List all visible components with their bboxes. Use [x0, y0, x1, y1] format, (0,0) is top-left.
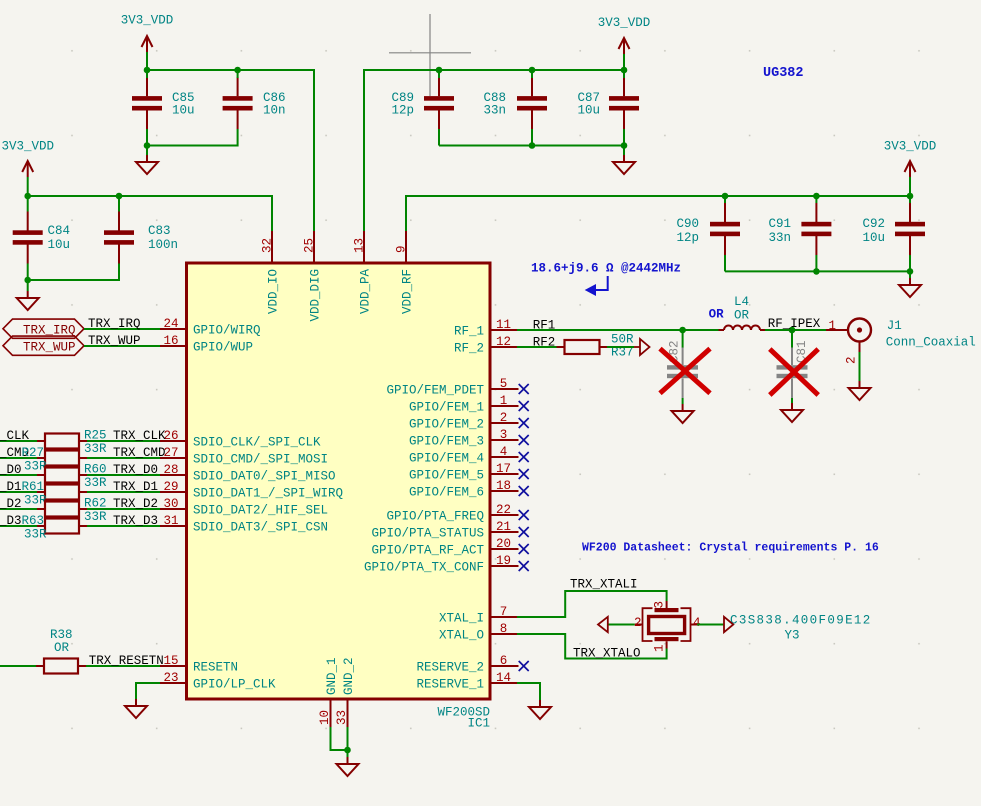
svg-text:C84: C84	[48, 224, 71, 238]
svg-text:GPIO/PTA_STATUS: GPIO/PTA_STATUS	[371, 527, 484, 541]
power symbol 3V3_VDD (top center)	[598, 16, 651, 54]
svg-text:5: 5	[500, 377, 508, 391]
net label TRX_XTALO	[573, 647, 641, 661]
svg-text:C90: C90	[676, 217, 699, 231]
pin name XTAL_O	[439, 629, 484, 643]
svg-text:18.6+j9.6 Ω @2442MHz: 18.6+j9.6 Ω @2442MHz	[531, 262, 681, 276]
svg-text:11: 11	[496, 318, 511, 332]
ground below C92	[899, 278, 921, 297]
svg-text:20: 20	[496, 537, 511, 551]
pin number 8	[500, 622, 508, 636]
label Y3 value	[730, 614, 872, 628]
svg-text:6: 6	[500, 654, 508, 668]
svg-text:RESERVE_1: RESERVE_1	[416, 678, 484, 692]
pin 21 GPIO/PTA_STATUS (right)	[490, 531, 519, 533]
capacitor C85	[132, 77, 162, 129]
ground below C85	[136, 155, 158, 174]
wire 3V3_VDD right arrow to rail	[909, 177, 911, 196]
pin name XTAL_I	[439, 612, 484, 626]
svg-text:100n: 100n	[148, 238, 178, 252]
svg-text:10: 10	[318, 710, 332, 725]
wire C90-C92 bottom rail	[725, 270, 910, 272]
resistor R62 33R	[45, 502, 79, 517]
wire C88 top stub	[531, 70, 533, 78]
wire C87 ground stub	[623, 146, 625, 156]
svg-text:1: 1	[500, 394, 508, 408]
pin number 25	[303, 238, 317, 253]
wire crystal pin4 stub	[697, 624, 724, 626]
pin number 10	[318, 710, 332, 725]
svg-text:GPIO/FEM_PDET: GPIO/FEM_PDET	[386, 384, 484, 398]
svg-text:SDIO_DAT0/_SPI_MISO: SDIO_DAT0/_SPI_MISO	[193, 470, 336, 484]
svg-text:R27: R27	[22, 446, 45, 460]
ground at pin 23	[125, 699, 147, 718]
svg-text:23: 23	[163, 671, 178, 685]
label C83 ref	[148, 224, 171, 238]
svg-text:3V3_VDD: 3V3_VDD	[121, 14, 174, 28]
svg-text:C3S838.400F09E12: C3S838.400F09E12	[730, 614, 872, 628]
label C86 ref	[263, 91, 286, 105]
wire TRX_D0 left stub	[0, 474, 37, 476]
resistor R63 pins	[37, 525, 87, 527]
net label TRX_XTALI	[570, 578, 638, 592]
pin number 17	[496, 462, 511, 476]
pin 10 GND_1 (bottom)	[330, 699, 332, 727]
cursor crosshair	[389, 14, 471, 96]
wire TRX_D1 left stub	[0, 491, 37, 493]
pin 15 RESETN (left)	[160, 665, 187, 667]
svg-text:RF_1: RF_1	[454, 325, 484, 339]
svg-text:XTAL_O: XTAL_O	[439, 629, 484, 643]
pin number 32	[261, 238, 275, 253]
label IC1 ref	[467, 717, 490, 731]
pin name RESETN	[193, 661, 238, 675]
pin number 5	[500, 377, 508, 391]
pin number 12	[496, 335, 511, 349]
svg-text:Y3: Y3	[785, 629, 800, 643]
label R63 value 33R	[24, 528, 47, 542]
ground below C82	[672, 404, 694, 423]
wire XTAL_I to crystal	[517, 591, 667, 617]
svg-text:15: 15	[163, 654, 178, 668]
svg-text:10u: 10u	[577, 104, 600, 118]
net label RF_IPEX	[768, 317, 821, 331]
capacitor C90	[710, 203, 740, 255]
svg-text:Conn_Coaxial: Conn_Coaxial	[886, 336, 976, 350]
pin number 11	[496, 318, 511, 332]
label C90 ref	[676, 217, 699, 231]
capacitor C92	[895, 203, 925, 255]
svg-text:VDD_IO: VDD_IO	[267, 269, 281, 314]
pin name GPIO/FEM_PDET	[386, 384, 484, 398]
svg-text:_D1: _D1	[0, 480, 22, 494]
svg-text:GPIO/LP_CLK: GPIO/LP_CLK	[193, 678, 276, 692]
pin 19 GPIO/PTA_TX_CONF (right)	[490, 565, 519, 567]
pin name GPIO/FEM_2	[409, 418, 484, 432]
wire TRX_CMD left stub	[0, 457, 37, 459]
pin name SDIO_DAT0/_SPI_MISO	[193, 470, 336, 484]
svg-text:VDD_DIG: VDD_DIG	[309, 269, 323, 322]
svg-text:SDIO_DAT1_/_SPI_WIRQ: SDIO_DAT1_/_SPI_WIRQ	[193, 487, 343, 501]
label Y3 ref	[785, 629, 800, 643]
no-connect X pin 18	[519, 486, 529, 496]
svg-text:24: 24	[163, 317, 178, 331]
wire TRX_RESETN left stub	[0, 665, 36, 667]
wire RF_IPEX to J1	[826, 329, 847, 331]
wire C84 ground stub	[27, 280, 29, 291]
pin 8 XTAL_O (right)	[490, 633, 517, 635]
capacitor C82 (DNP, gray)	[667, 340, 698, 398]
pin number 18	[496, 479, 511, 493]
svg-text:TRX_CMD: TRX_CMD	[113, 446, 166, 460]
label C89 value 12p	[391, 104, 414, 118]
resistor R61 33R	[45, 485, 79, 500]
no-connect X pin 17	[519, 469, 529, 479]
no-connect X pin 20	[519, 544, 529, 554]
label R60 ref	[84, 463, 107, 477]
pin 11 RF_1 (right)	[490, 329, 517, 331]
pin name SDIO_DAT1_/_SPI_WIRQ	[193, 487, 343, 501]
junction left rail at C84	[24, 193, 31, 200]
svg-text:3: 3	[653, 601, 667, 609]
resistor R37 50R	[565, 340, 600, 354]
svg-text:10u: 10u	[862, 231, 885, 245]
label R61 value 33R	[24, 494, 47, 508]
svg-text:OR: OR	[54, 641, 70, 655]
junction C87 bottom	[621, 142, 628, 149]
pin name VDD_PA	[359, 268, 373, 314]
svg-text:2: 2	[845, 356, 859, 364]
label C84 value 10u	[48, 238, 71, 252]
svg-text:TRX_RESETN: TRX_RESETN	[89, 654, 164, 668]
note impedance 18.6+j9.6	[531, 262, 681, 276]
net label TRX_CMD	[113, 446, 166, 460]
pin name GND_2	[342, 657, 356, 695]
pin number 29	[163, 480, 178, 494]
label J1 value Conn_Coaxial	[886, 336, 976, 350]
net label RF1	[533, 318, 556, 332]
wire C84 bottom to rail	[27, 264, 29, 281]
DNP cross C82	[660, 349, 710, 394]
svg-text:IC1: IC1	[467, 717, 490, 731]
svg-text:1: 1	[828, 319, 836, 333]
svg-text:GPIO/FEM_3: GPIO/FEM_3	[409, 435, 484, 449]
pin 31 SDIO_DAT3/_SPI_CSN (left)	[160, 525, 187, 527]
wire RF1 net (right of L4)	[764, 329, 826, 331]
pin 1 GPIO/FEM_1 (right)	[490, 405, 519, 407]
wire C84 top stub	[27, 196, 29, 212]
wire C92 ground stub	[909, 271, 911, 278]
label R27 value 33R	[24, 460, 47, 474]
wire C89 bottom to rail corner	[438, 129, 440, 146]
svg-text:VDD_PA: VDD_PA	[359, 268, 373, 314]
pin 20 GPIO/PTA_RF_ACT (right)	[490, 548, 519, 550]
pin name SDIO_DAT3/_SPI_CSN	[193, 521, 328, 535]
wire top-left 3V3 rail to pin 25	[147, 70, 314, 231]
label C90 value 12p	[676, 231, 699, 245]
resistor R25 33R	[45, 434, 79, 449]
svg-text:SDIO_CLK/_SPI_CLK: SDIO_CLK/_SPI_CLK	[193, 436, 321, 450]
pin name GPIO/WIRQ	[193, 324, 261, 338]
svg-text:2: 2	[500, 411, 508, 425]
svg-text:3: 3	[500, 428, 508, 442]
wire C81 bottom stub	[791, 398, 793, 403]
label R37 ref	[611, 346, 634, 360]
no-connect X pin 4	[519, 452, 529, 462]
svg-text:GPIO/FEM_6: GPIO/FEM_6	[409, 486, 484, 500]
svg-text:27: 27	[163, 446, 178, 460]
wire GND_2 to ground	[347, 727, 349, 757]
pin 5 GPIO/FEM_PDET (right)	[490, 388, 519, 390]
svg-text:TRX_XTALI: TRX_XTALI	[570, 578, 638, 592]
svg-text:TRX_D0: TRX_D0	[113, 463, 158, 477]
pin 17 GPIO/FEM_5 (right)	[490, 473, 519, 475]
svg-text:3V3_VDD: 3V3_VDD	[598, 16, 651, 30]
wire C85 bottom to rail	[146, 129, 148, 146]
svg-text:R62: R62	[84, 497, 107, 511]
label J1 ref	[887, 319, 902, 333]
wire R25 to pin	[87, 440, 160, 442]
svg-text:WF200 Datasheet: Crystal requi: WF200 Datasheet: Crystal requirements P.…	[582, 542, 879, 555]
wire R37 to hierarchical label	[607, 346, 634, 348]
svg-text:TRX_D2: TRX_D2	[113, 497, 158, 511]
ground below C84	[17, 291, 39, 310]
wire C84-C83 bottom rail	[28, 264, 119, 281]
wire 3V3_VDD center arrow to rail	[623, 54, 625, 70]
wire RF2 to R37	[517, 346, 557, 348]
svg-text:OR: OR	[709, 308, 725, 322]
svg-text:SDIO_DAT2/_HIF_SEL: SDIO_DAT2/_HIF_SEL	[193, 504, 328, 518]
pin number 4 (Y3)	[693, 616, 701, 630]
label R38 ref	[50, 628, 73, 642]
hierarchical label arrow right of crystal	[724, 617, 733, 632]
wire TRX_D3 left stub	[0, 525, 37, 527]
svg-text:33R: 33R	[84, 476, 107, 490]
pin name GPIO/PTA_STATUS	[371, 527, 484, 541]
wire pin 14 to ground	[517, 683, 540, 700]
svg-text:R63: R63	[22, 514, 45, 528]
junction rail at C88	[529, 67, 536, 74]
no-connect X pin 2	[519, 418, 529, 428]
svg-text:33R: 33R	[84, 442, 107, 456]
resistor R63 33R	[45, 519, 79, 534]
wire pin 23 to ground	[136, 683, 160, 699]
capacitor C87	[609, 77, 639, 129]
svg-text:26: 26	[163, 429, 178, 443]
pin 30 SDIO_DAT2/_HIF_SEL (left)	[160, 508, 187, 510]
svg-text:R60: R60	[84, 463, 107, 477]
label R61 ref	[22, 480, 45, 494]
resistor R60 pins	[37, 474, 87, 476]
svg-text:3V3_VDD: 3V3_VDD	[884, 140, 937, 154]
label C88 value 33n	[483, 104, 506, 118]
wire C85-C86 bottom rail	[147, 129, 238, 146]
wire C85 top stub	[146, 70, 148, 78]
label C84 ref	[48, 224, 71, 238]
capacitor C81 (DNP, gray)	[777, 340, 810, 398]
junction C84 bottom	[24, 277, 31, 284]
label C92 value 10u	[862, 231, 885, 245]
capacitor C88	[517, 77, 547, 129]
no-connect X pin 3	[519, 435, 529, 445]
svg-text:C83: C83	[148, 224, 171, 238]
crystal Y3	[635, 601, 697, 649]
label R63 ref	[22, 514, 45, 528]
junction GND net	[344, 747, 351, 754]
svg-text:TRX_IRQ: TRX_IRQ	[88, 317, 141, 331]
capacitor C86	[223, 77, 253, 129]
wire C87 top stub	[623, 70, 625, 78]
svg-text:25: 25	[303, 238, 317, 253]
wire TRX_D2 left stub	[0, 508, 37, 510]
svg-text:4: 4	[693, 616, 701, 630]
wire C87 bottom stub	[623, 129, 625, 146]
wire 3V3_VDD left arrow to rail	[27, 177, 29, 196]
pin 2 J1 stub	[859, 342, 861, 353]
pin number 6	[500, 654, 508, 668]
svg-text:17: 17	[496, 462, 511, 476]
svg-text:4: 4	[500, 445, 508, 459]
no-connect X pin 22	[519, 510, 529, 520]
pin number 7	[500, 605, 508, 619]
pin number 3	[500, 428, 508, 442]
svg-text:_D0: _D0	[0, 463, 22, 477]
pin number 13	[353, 238, 367, 253]
wire XTAL_O to crystal	[517, 634, 667, 659]
svg-text:RESERVE_2: RESERVE_2	[416, 661, 484, 675]
svg-text:12: 12	[496, 335, 511, 349]
resistor R61 pins	[37, 491, 87, 493]
svg-text:12p: 12p	[391, 104, 414, 118]
ground below J1	[849, 381, 871, 400]
pin number 1 (Y3)	[653, 644, 667, 652]
svg-text:XTAL_I: XTAL_I	[439, 612, 484, 626]
svg-text:OR: OR	[734, 309, 750, 323]
label R25 value 33R	[84, 442, 107, 456]
svg-text:2: 2	[634, 616, 642, 630]
pin 16 GPIO/WUP (left)	[160, 345, 187, 347]
pin name GPIO/FEM_5	[409, 469, 484, 483]
ground below IC	[337, 757, 359, 776]
pin name VDD_RF	[401, 269, 415, 314]
no-connect X pin 1	[519, 401, 529, 411]
pin 23 GPIO/LP_CLK (left)	[160, 682, 187, 684]
pin name RF_1	[454, 325, 484, 339]
label L4 value 0R	[734, 309, 750, 323]
label C91 value 33n	[768, 231, 791, 245]
wire C89 top stub	[438, 70, 440, 78]
power symbol 3V3_VDD (top left)	[121, 14, 174, 53]
pin 18 GPIO/FEM_6 (right)	[490, 490, 519, 492]
svg-text:GPIO/WUP: GPIO/WUP	[193, 341, 253, 355]
wire 3V3_VDD arrow to rail	[146, 52, 148, 70]
svg-text:29: 29	[163, 480, 178, 494]
svg-text:R25: R25	[84, 429, 107, 443]
svg-text:13: 13	[353, 238, 367, 253]
svg-text:50R: 50R	[611, 333, 634, 347]
DNP cross C81	[770, 349, 818, 395]
no-connect X pin 5	[519, 384, 529, 394]
ground at pin 14	[529, 700, 551, 719]
pin name SDIO_CMD/_SPI_MOSI	[193, 453, 328, 467]
svg-text:1: 1	[653, 644, 667, 652]
global label TRX_WUP	[3, 336, 84, 355]
net label _CMD	[0, 446, 29, 460]
svg-text:3V3_VDD: 3V3_VDD	[1, 140, 54, 154]
svg-text:C91: C91	[768, 217, 791, 231]
label C91 ref	[768, 217, 791, 231]
pin number 31	[163, 514, 178, 528]
svg-text:GPIO/PTA_RF_ACT: GPIO/PTA_RF_ACT	[371, 544, 484, 558]
pin name RESERVE_1	[416, 678, 484, 692]
pin name RESERVE_2	[416, 661, 484, 675]
resistor R38 pins	[36, 665, 86, 667]
svg-text:_CLK: _CLK	[0, 429, 30, 443]
label R27 ref	[22, 446, 45, 460]
svg-text:32: 32	[261, 238, 275, 253]
svg-text:GPIO/PTA_FREQ: GPIO/PTA_FREQ	[386, 510, 484, 524]
pin 6 RESERVE_2 (right)	[490, 665, 519, 667]
svg-text:33n: 33n	[768, 231, 791, 245]
resistor R25 pins	[37, 440, 87, 442]
pin number 3 (Y3)	[653, 601, 667, 609]
svg-text:10u: 10u	[172, 104, 195, 118]
global label TRX_IRQ	[3, 319, 84, 338]
IC IC1 WF200SD body	[187, 263, 491, 699]
pin number 2	[500, 411, 508, 425]
svg-text:33n: 33n	[483, 104, 506, 118]
svg-text:RESETN: RESETN	[193, 661, 238, 675]
net label TRX_D1	[113, 480, 158, 494]
pin 29 SDIO_DAT1_/_SPI_WIRQ (left)	[160, 491, 187, 493]
pin 26 SDIO_CLK/_SPI_CLK (left)	[160, 440, 187, 442]
label C87 value 10u	[577, 104, 600, 118]
note UG382	[763, 66, 804, 81]
svg-text:33R: 33R	[24, 494, 47, 508]
junction left rail at C83	[116, 193, 123, 200]
junction rail at C87	[621, 67, 628, 74]
pin number 2 (J1)	[845, 356, 859, 364]
svg-text:GPIO/FEM_5: GPIO/FEM_5	[409, 469, 484, 483]
svg-text:TRX_D1: TRX_D1	[113, 480, 158, 494]
capacitor C84	[13, 212, 43, 264]
wire R60 to pin	[87, 474, 160, 476]
wire R38 to pin 15	[86, 665, 160, 667]
pin name VDD_IO	[267, 269, 281, 314]
wire TRX_CLK left stub	[0, 440, 37, 442]
note WF200 datasheet crystal requirements	[582, 542, 879, 555]
resistor R38 0R	[44, 659, 78, 674]
pin number 15	[163, 654, 178, 668]
ground below C81	[781, 403, 803, 422]
note OR (blue)	[709, 308, 725, 322]
svg-text:8: 8	[500, 622, 508, 636]
svg-text:GPIO/FEM_2: GPIO/FEM_2	[409, 418, 484, 432]
resistor R60 33R	[45, 468, 79, 483]
svg-text:RF_2: RF_2	[454, 342, 484, 356]
pin 7 XTAL_I (right)	[490, 616, 517, 618]
wire C90 top stub	[724, 196, 726, 203]
pin name RF_2	[454, 342, 484, 356]
svg-text:VDD_RF: VDD_RF	[401, 269, 415, 314]
resistor R62 pins	[37, 508, 87, 510]
pin 27 SDIO_CMD/_SPI_MOSI (left)	[160, 457, 187, 459]
junction C85 bottom	[144, 142, 151, 149]
svg-text:GND_1: GND_1	[325, 657, 339, 695]
pin 32 VDD_IO (top)	[271, 231, 273, 263]
hierarchical label arrow after R37	[634, 339, 650, 355]
pin 2 GPIO/FEM_2 (right)	[490, 422, 519, 424]
